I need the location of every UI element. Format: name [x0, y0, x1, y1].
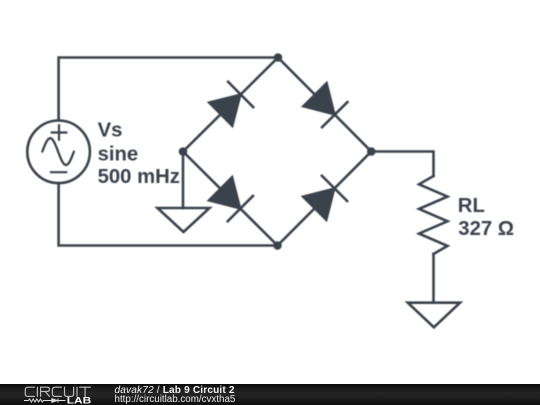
- diode D1 triangle: [209, 94, 241, 126]
- logo diode symbol: [52, 399, 58, 403]
- logo letter R: [41, 387, 50, 396]
- footer line 1: [115, 386, 235, 396]
- wire bottom: source bottom to bottom node: [59, 184, 278, 246]
- resistor RL zigzag: [419, 176, 448, 254]
- diode D4 triangle: [303, 188, 335, 220]
- node top: [274, 53, 283, 62]
- ground GND2 (right): [408, 303, 460, 328]
- logo letter I: [36, 387, 38, 396]
- wire resistor bottom to ground: [432, 254, 435, 303]
- svg-text:Vs: Vs: [98, 119, 123, 141]
- diode D1 cathode bar: [228, 82, 253, 107]
- footer bar: [0, 384, 540, 405]
- voltage source minus sign: [51, 171, 66, 173]
- wire bridge segment top-right: [278, 58, 371, 152]
- diode D2 cathode bar: [322, 102, 347, 127]
- diode D3 cathode bar: [228, 196, 253, 221]
- wire left node to ground: [182, 152, 185, 209]
- voltage source sine wave: [42, 138, 74, 165]
- ground GND1 (left): [158, 208, 210, 232]
- svg-text:LAB: LAB: [67, 396, 92, 405]
- footer line 2: [115, 395, 236, 405]
- wire bridge segment bottom-right: [278, 152, 372, 246]
- diode D4 cathode bar: [322, 176, 347, 201]
- wire top: source top to top node: [59, 58, 278, 121]
- voltage source Vs circle: [27, 121, 90, 184]
- svg-text:500 mHz: 500 mHz: [98, 166, 180, 188]
- svg-text:sine: sine: [98, 143, 139, 165]
- logo letter C: [25, 387, 34, 396]
- logo letter T: [80, 387, 91, 396]
- svg-text:327 Ω: 327 Ω: [458, 218, 514, 240]
- wire bridge segment left-top: [183, 58, 278, 152]
- node right: [367, 147, 376, 156]
- wire right node to resistor top: [371, 152, 433, 177]
- diode D3 triangle: [209, 177, 241, 209]
- logo letter U: [65, 387, 74, 396]
- logo resistor zigzag: [24, 399, 66, 402]
- wire bridge segment left-bottom: [183, 152, 278, 246]
- svg-text:RL: RL: [458, 195, 485, 217]
- diode D2 triangle: [303, 83, 335, 115]
- circuitlab logo: [0, 384, 110, 405]
- logo letter I: [76, 387, 78, 396]
- node left: [179, 147, 188, 156]
- node bottom: [273, 241, 282, 250]
- logo letter C: [52, 387, 61, 396]
- voltage source plus sign: [52, 125, 67, 139]
